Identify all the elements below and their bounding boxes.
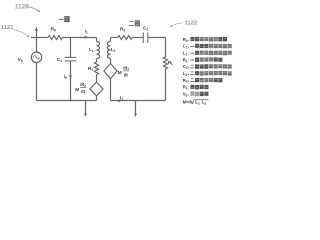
wire top-left from junction to R0 xyxy=(31,37,48,39)
wire R1 to dependent source xyxy=(96,75,98,83)
svg-text:V0: V0 xyxy=(183,91,188,97)
resistor R2 (secondary coil resistance) xyxy=(118,36,133,40)
voltage source V0 branch wire lower xyxy=(36,63,38,101)
wire L1 to R1 xyxy=(96,59,98,63)
svg-text:dt: dt xyxy=(124,72,129,77)
svg-text:RL: RL xyxy=(168,60,173,66)
inductor L1 coil xyxy=(97,42,100,59)
ground arrow primary xyxy=(85,101,87,114)
svg-text:R2: R2 xyxy=(120,27,125,33)
svg-text:R2: R2 xyxy=(183,78,188,84)
inductor L2 coil xyxy=(107,42,110,59)
svg-text:R1: R1 xyxy=(183,57,188,63)
svg-text:R0: R0 xyxy=(51,27,56,33)
inductor L1 top stub xyxy=(96,38,98,42)
resistor RL (load) xyxy=(164,57,168,69)
leader arrow from 1122 to secondary circuit xyxy=(172,23,182,26)
junction dot at C1 bottom xyxy=(70,100,72,102)
capacitor C1 branch lower wire xyxy=(70,61,72,101)
svg-text:L2: L2 xyxy=(183,71,188,77)
svg-text:R0: R0 xyxy=(183,37,188,43)
svg-text:V0: V0 xyxy=(18,57,23,63)
svg-text:M: M xyxy=(75,87,79,93)
wire C2 to load corner xyxy=(148,37,166,39)
svg-text:1122: 1122 xyxy=(185,21,198,27)
text 一次 (primary side heading) xyxy=(59,18,64,21)
svg-text:√: √ xyxy=(191,99,194,106)
load branch lower wire xyxy=(165,69,167,101)
wire dependent source to secondary bottom xyxy=(110,79,112,101)
inductor L2 top stub xyxy=(110,38,112,42)
svg-text:L2: L2 xyxy=(111,47,116,53)
wire dependent source to primary bottom xyxy=(96,96,98,101)
capacitor C1 branch upper wire xyxy=(70,38,72,58)
ground arrow secondary xyxy=(135,101,137,114)
wire secondary bottom xyxy=(111,100,166,102)
leader arrow from 1120 to top wire xyxy=(27,7,39,11)
wire L2 to dependent source xyxy=(110,59,112,64)
svg-text:L1: L1 xyxy=(183,51,188,57)
svg-text:i0: i0 xyxy=(64,74,67,80)
capacitor C1 plates xyxy=(65,56,77,58)
capacitor C2 plates xyxy=(142,32,144,43)
svg-text:C1: C1 xyxy=(183,44,188,50)
AC source V0 circle xyxy=(31,52,41,62)
resistor R0 xyxy=(48,36,63,40)
svg-text:1121: 1121 xyxy=(1,25,14,31)
wire R2 to C2 xyxy=(132,37,143,39)
svg-text:dI1: dI1 xyxy=(123,65,129,71)
resistor R1 (primary coil resistance) xyxy=(95,62,99,75)
svg-text:C1: C1 xyxy=(57,57,62,63)
dependent source M dI2/dt (diamond) in primary xyxy=(90,82,103,96)
current arrow i1 on top wire xyxy=(85,36,89,39)
current arrow i0 (down) on C1 branch xyxy=(69,75,72,79)
svg-text:i1: i1 xyxy=(85,28,88,34)
dependent source M dI1/dt (diamond) in secondary xyxy=(104,64,117,79)
wire primary bottom xyxy=(37,100,97,102)
svg-text:dt: dt xyxy=(81,89,86,94)
svg-text:R1: R1 xyxy=(88,66,93,72)
wire R0 to L1 top corner xyxy=(63,37,97,39)
current arrow i2 on secondary bottom wire xyxy=(118,99,122,102)
load branch upper wire xyxy=(165,38,167,58)
svg-text:L1: L1 xyxy=(195,100,200,106)
svg-text:L1: L1 xyxy=(89,47,94,53)
svg-text:L2: L2 xyxy=(202,100,207,106)
junction dot at C1 top xyxy=(70,37,72,39)
svg-text:RL: RL xyxy=(183,85,188,91)
leader arrow from 1121 to source branch xyxy=(14,30,27,36)
svg-text:C2: C2 xyxy=(143,25,148,31)
text 二次 (secondary side heading) xyxy=(129,20,133,23)
voltage source V0 branch wire upper xyxy=(36,38,38,53)
svg-text:C2: C2 xyxy=(183,64,188,70)
svg-text:M: M xyxy=(118,70,122,76)
svg-text:dI2: dI2 xyxy=(80,82,86,88)
svg-text:i2: i2 xyxy=(120,96,123,102)
node input arrow (up) at source top junction xyxy=(36,31,38,38)
wire secondary top from L2 to R2 xyxy=(111,37,118,39)
